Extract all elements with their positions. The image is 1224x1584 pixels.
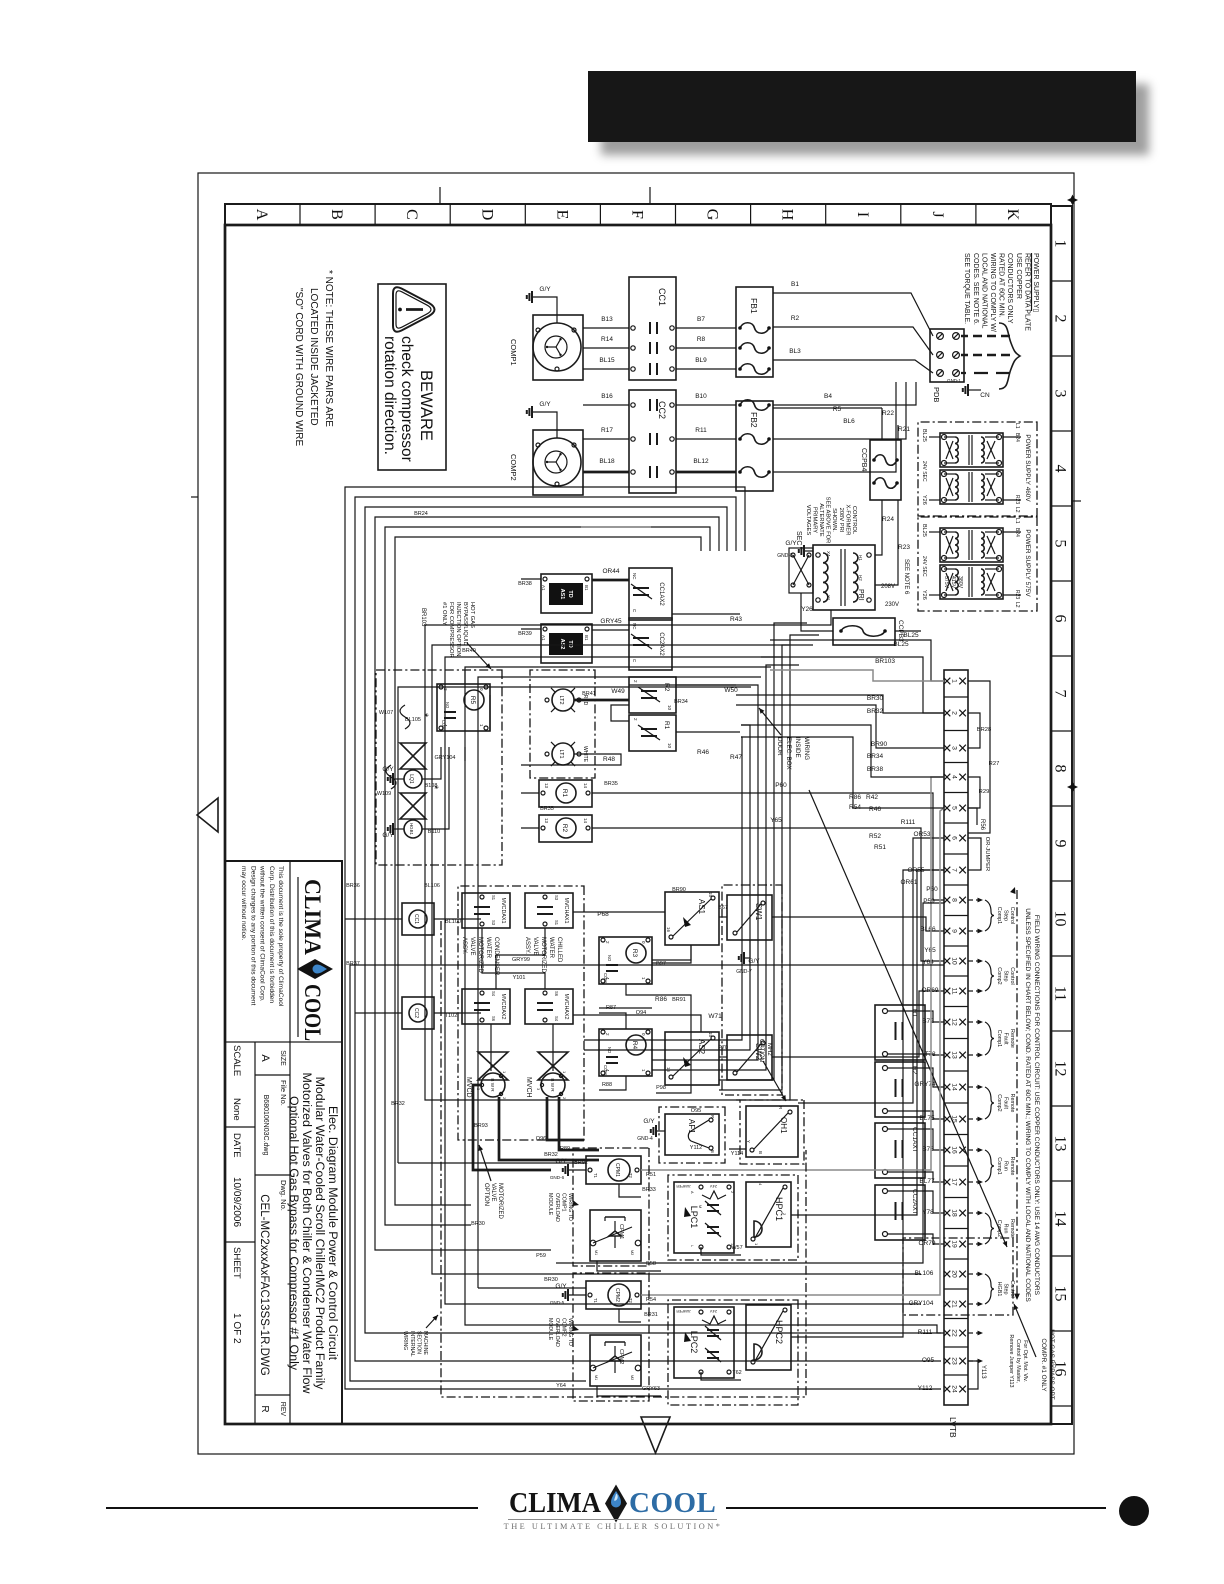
svg-text:FB1: FB1 (749, 298, 759, 314)
svg-text:415V: 415V (950, 576, 956, 589)
wire R23 (875, 500, 898, 585)
svg-text:B16: B16 (601, 393, 613, 400)
wire BL9 (676, 368, 736, 370)
svg-text:OH1: OH1 (779, 1117, 788, 1134)
wire W57 (701, 1247, 741, 1255)
svg-text:rotation direction.: rotation direction. (381, 336, 398, 455)
svg-text:Motorized Valves for Both Chil: Motorized Valves for Both Chiller & Cond… (300, 1073, 314, 1394)
module HPC2 (746, 1305, 791, 1370)
field wiring control step comp1 (968, 899, 980, 901)
svg-text:11: 11 (1052, 986, 1069, 1001)
module CPM2 coil (586, 1281, 641, 1309)
wire Y101 (482, 928, 545, 989)
svg-text:W49: W49 (611, 688, 625, 695)
svg-text:B97: B97 (656, 961, 666, 967)
wire R2 (773, 326, 905, 328)
svg-text:Y78: Y78 (922, 1209, 934, 1216)
svg-text:BR93: BR93 (474, 1123, 488, 1129)
svg-text:9: 9 (951, 929, 958, 933)
relay R3 (599, 937, 652, 984)
svg-text:CLIMA: CLIMA (300, 879, 325, 955)
svg-text:X1: X1 (826, 595, 831, 601)
corner star marker (1067, 195, 1078, 206)
svg-text:Remove Jumper Y113: Remove Jumper Y113 (1008, 1334, 1014, 1387)
svg-text:POWER SUPPLY 460V: POWER SUPPLY 460V (1024, 434, 1031, 502)
wire T62 (701, 1372, 741, 1380)
svg-text:H1: H1 (858, 555, 863, 561)
svg-text:Step: Step (1003, 970, 1009, 981)
svg-text:X-FORMER: X-FORMER (844, 505, 850, 536)
relay R4 (599, 1029, 652, 1076)
svg-text:R8: R8 (697, 336, 706, 343)
svg-text:R23: R23 (898, 544, 910, 551)
svg-text:15: 15 (1052, 1286, 1069, 1302)
lamp LT1 white (552, 743, 574, 765)
wire BL15 (583, 368, 629, 370)
module LPC1 (674, 1182, 734, 1253)
border tick left upper (649, 187, 651, 204)
svg-text:GND-6: GND-6 (550, 1175, 565, 1180)
svg-text:B W R: B W R (490, 1078, 495, 1092)
svg-text:R2: R2 (561, 824, 568, 833)
wire BR39 as2 (521, 628, 541, 630)
flow switch AF1 (665, 1114, 719, 1155)
svg-text:CODES. SEE NOTE 6.: CODES. SEE NOTE 6. (972, 253, 979, 325)
svg-text:T102: T102 (445, 1013, 458, 1019)
revision triangle right (641, 1417, 670, 1453)
svg-text:B13: B13 (601, 316, 613, 323)
svg-text:NO: NO (607, 955, 612, 962)
svg-text:W71: W71 (708, 1013, 722, 1020)
svg-text:WIRING TO COMPLY W/: WIRING TO COMPLY W/ (989, 253, 996, 332)
svg-text:CC1: CC1 (657, 288, 667, 306)
svg-text:BR41: BR41 (582, 691, 596, 697)
dash-dot comp2 modules (573, 1273, 649, 1401)
svg-text:JUMPER: JUMPER (676, 1184, 691, 1188)
svg-text:INTERNAL: INTERNAL (409, 1331, 415, 1357)
svg-text:LT1: LT1 (558, 749, 564, 758)
svg-text:Y65: Y65 (924, 947, 936, 954)
svg-text:1: 1 (502, 1071, 507, 1074)
module LPC2 (674, 1307, 734, 1378)
svg-text:15: 15 (708, 892, 713, 898)
field wiring remote fault comp1 (968, 1021, 980, 1023)
svg-text:BR35: BR35 (604, 781, 618, 787)
svg-text:COMPR. #1 ONLY: COMPR. #1 ONLY (1040, 1338, 1047, 1392)
svg-text:4: 4 (951, 775, 958, 779)
wire BR38 as1 (521, 578, 541, 580)
svg-text:5: 5 (951, 806, 958, 810)
ground LQ1 G/Y (394, 778, 404, 780)
svg-text:Step: Step (1003, 910, 1009, 921)
svg-text:R48: R48 (603, 756, 615, 763)
svg-text:H: H (779, 209, 796, 221)
svg-text:MVCH: MVCH (525, 1077, 532, 1098)
svg-text:3: 3 (1052, 390, 1069, 398)
transformer 460V secondary (940, 470, 1003, 504)
bus nest 3 (365, 507, 941, 1333)
svg-text:BR91: BR91 (672, 997, 686, 1003)
svg-text:R51: R51 (646, 1172, 656, 1178)
svg-text:WIRING: WIRING (402, 1331, 408, 1350)
svg-text:AS1: AS1 (559, 589, 565, 600)
footer rule left (106, 1507, 478, 1509)
jumper R27 (968, 681, 990, 833)
svg-text:HGB1: HGB1 (409, 823, 414, 836)
wire B7 (676, 327, 736, 329)
svg-text:L1: L1 (1014, 518, 1020, 524)
svg-text:7: 7 (951, 868, 958, 872)
module CPM2 overload (590, 1335, 641, 1386)
svg-text:13: 13 (951, 1051, 958, 1059)
jumper R29 (968, 777, 980, 808)
svg-text:BR103: BR103 (420, 608, 426, 627)
wire R43 (672, 613, 740, 615)
svg-text:R21: R21 (898, 426, 910, 433)
field wiring remote run comp2 (968, 1212, 980, 1214)
svg-text:K: K (1004, 209, 1021, 221)
svg-text:ELEC. BOX: ELEC. BOX (785, 737, 792, 770)
svg-text:Y26: Y26 (921, 590, 927, 600)
bus nest 6 (395, 537, 701, 1205)
svg-text:SEC: SEC (795, 531, 802, 545)
valve motor MVCH (538, 1052, 568, 1066)
bus nest outer (345, 487, 941, 1389)
svg-text:14: 14 (583, 783, 588, 789)
svg-text:2: 2 (605, 941, 610, 944)
svg-text:5: 5 (1052, 540, 1069, 548)
PDB feed wires (905, 293, 933, 336)
power supply 575V option box (918, 517, 1037, 611)
svg-text:R46: R46 (697, 749, 709, 756)
valve motor heavy wires (559, 1097, 599, 1150)
svg-text:B: B (710, 1150, 715, 1153)
svg-text:L2: L2 (1014, 507, 1020, 513)
svg-text:LPC2: LPC2 (689, 1331, 699, 1354)
title block outline (225, 861, 342, 1424)
field wiring boundary dash-dot (1016, 890, 1018, 1298)
svg-text:1: 1 (951, 679, 958, 683)
svg-text:GRY45: GRY45 (600, 618, 622, 625)
svg-text:may occur without notice.: may occur without notice. (240, 866, 247, 941)
field wiring remote run comp1 (968, 1149, 980, 1151)
svg-text:BR35: BR35 (540, 806, 554, 812)
wire W107 wire (489, 695, 491, 731)
svg-text:W109: W109 (377, 791, 391, 797)
svg-text:CN: CN (980, 392, 990, 399)
svg-text:G/Y: G/Y (555, 1158, 567, 1165)
svg-text:LPC1: LPC1 (689, 1206, 699, 1229)
svg-text:BL100: BL100 (445, 919, 461, 925)
svg-text:A: A (690, 1191, 694, 1194)
svg-text:ASSY.: ASSY. (461, 937, 467, 954)
solenoid LQ1 (400, 743, 426, 756)
svg-text:R4: R4 (631, 1041, 638, 1050)
svg-text:PRIMARY: PRIMARY (811, 507, 817, 533)
svg-text:NO: NO (445, 702, 450, 709)
svg-text:L: L (690, 1245, 694, 1247)
wire R111 oh1 (798, 838, 944, 1103)
svg-text:S6: S6 (554, 991, 559, 997)
svg-text:Y26: Y26 (921, 495, 927, 505)
wire GRY63 (597, 1386, 661, 1396)
svg-text:S1: S1 (491, 895, 496, 901)
svg-text:CONDUCTORS ONLY: CONDUCTORS ONLY (1006, 253, 1013, 324)
bus BR32 inner (398, 687, 751, 1163)
svg-text:CPM2: CPM2 (618, 1349, 624, 1364)
svg-text:15: 15 (708, 1032, 713, 1038)
machine section boundary dash-dot (441, 921, 806, 1397)
svg-text:W107: W107 (379, 710, 393, 716)
wire AX2 to motors (552, 1024, 554, 1071)
svg-text:BR32: BR32 (867, 708, 884, 715)
svg-text:23: 23 (951, 1357, 958, 1365)
svg-text:21: 21 (951, 1300, 958, 1308)
svg-text:2: 2 (633, 680, 638, 683)
ground HGB1 G/Y (394, 828, 404, 830)
compressor COMP1 (533, 315, 583, 380)
wire R87 (599, 1013, 626, 1029)
svg-text:G/Y: G/Y (539, 401, 551, 408)
wire P98 (656, 1085, 691, 1093)
ground CPM2 G/Y GND-5 (569, 1294, 586, 1296)
ruler letter band (225, 204, 1051, 225)
svg-text:J: J (929, 211, 946, 217)
svg-text:CC2: CC2 (413, 1008, 419, 1018)
svg-text:BL9: BL9 (695, 357, 707, 364)
svg-text:B4: B4 (824, 393, 832, 400)
svg-text:INJECTION OPTION: INJECTION OPTION (455, 602, 461, 656)
svg-text:NC: NC (632, 623, 637, 630)
svg-text:Remote: Remote (1009, 1157, 1015, 1176)
module CPM1 coil (586, 1156, 641, 1184)
svg-text:COM: COM (603, 973, 608, 983)
svg-text:M1: M1 (594, 1375, 598, 1380)
svg-text:S4: S4 (554, 1016, 559, 1022)
svg-text:20: 20 (951, 1270, 958, 1278)
wire B108 (422, 747, 441, 779)
pigtail W109 (386, 765, 396, 789)
svg-text:C: C (403, 209, 420, 220)
overload switch OH1 (746, 1106, 798, 1157)
svg-text:380V: 380V (957, 576, 963, 589)
svg-text:S6: S6 (491, 1016, 496, 1022)
svg-text:Comp2: Comp2 (996, 1094, 1002, 1111)
border tick bottom (191, 496, 198, 498)
svg-text:Remote: Remote (1009, 1029, 1015, 1048)
dash-dot comp1 modules (573, 1148, 649, 1266)
wire BL66 sw1 (772, 917, 944, 931)
svg-text:BL15: BL15 (599, 357, 615, 364)
wire OR61 hpc2 (791, 870, 944, 1337)
wire OR44 (592, 579, 629, 582)
relay contact R1 aux (875, 1005, 925, 1060)
svg-text:X4: X4 (826, 551, 831, 557)
switch SW1 (727, 895, 772, 940)
transformer 575V secondary (940, 565, 1003, 599)
svg-text:2: 2 (730, 1191, 734, 1193)
relay coil R1 (539, 780, 592, 807)
svg-text:12: 12 (951, 1018, 958, 1026)
border tick left lower (439, 187, 441, 204)
wire B4 (773, 382, 916, 405)
svg-text:R111: R111 (901, 819, 916, 826)
svg-text:CPM2: CPM2 (614, 1288, 620, 1302)
svg-text:O96: O96 (536, 1136, 546, 1142)
svg-text:SIZE: SIZE (279, 1050, 286, 1066)
wire B97 (652, 945, 691, 963)
svg-text:24V SEC: 24V SEC (921, 461, 927, 482)
svg-text:SEE ABOVE FOR: SEE ABOVE FOR (825, 497, 831, 544)
fuse block FB1 (736, 287, 773, 377)
svg-text:BR39: BR39 (518, 631, 532, 637)
svg-text:BL18: BL18 (599, 458, 615, 465)
svg-text:10: 10 (1052, 911, 1069, 927)
svg-text:2: 2 (1052, 315, 1069, 323)
wire BL6 (773, 382, 896, 472)
wire BL3 (773, 359, 905, 361)
svg-text:H2: H2 (858, 575, 863, 581)
svg-text:OR-JUMPER: OR-JUMPER (984, 837, 990, 871)
wire B16 (583, 404, 629, 406)
svg-text:R29: R29 (979, 789, 990, 795)
svg-text:8: 8 (1052, 765, 1069, 773)
wire BR31 (619, 1309, 641, 1322)
svg-text:MACHINE: MACHINE (422, 1331, 428, 1355)
bus R42 risers (741, 725, 944, 777)
svg-text:R14: R14 (601, 336, 613, 343)
svg-text:R5: R5 (469, 696, 476, 705)
svg-text:#1 ONLY: #1 ONLY (441, 602, 447, 626)
svg-text:check compressor: check compressor (398, 336, 415, 462)
svg-text:C: C (632, 609, 637, 613)
coil CC1 (402, 903, 434, 935)
control transformer (813, 545, 875, 610)
svg-text:R3: R3 (631, 949, 638, 958)
svg-text:Remote: Remote (1009, 1219, 1015, 1238)
svg-text:P60: P60 (775, 782, 787, 789)
svg-text:SCALE: SCALE (231, 1045, 242, 1076)
hot gas option dash-dot box (376, 670, 502, 865)
bus R86 riser (652, 945, 691, 960)
svg-text:BL6: BL6 (843, 418, 855, 425)
svg-text:17: 17 (951, 1178, 958, 1186)
ground COMP1 G/Y (533, 297, 557, 323)
svg-text:R1: R1 (561, 789, 568, 798)
bus BR30 inner (478, 677, 761, 1288)
wire Y26 (801, 593, 833, 631)
bus BR103 mid (425, 610, 831, 1100)
svg-text:SHOWN.: SHOWN. (831, 508, 837, 532)
svg-text:FOR COMPRESSOR: FOR COMPRESSOR (448, 602, 454, 658)
wire GRY99 (496, 928, 545, 989)
svg-text:COM: COM (603, 1065, 608, 1075)
svg-text:E: E (553, 210, 570, 220)
wire L2 supply dashed (961, 354, 1010, 357)
svg-text:LOCAL AND NATIONAL: LOCAL AND NATIONAL (980, 253, 987, 329)
warning triangle (393, 287, 435, 331)
wire R8 (676, 347, 736, 349)
bus nest 4 (375, 517, 719, 1250)
svg-text:PRI: PRI (857, 589, 864, 601)
wire GRY104 r2 (521, 827, 539, 829)
title row3 (225, 1126, 255, 1128)
wire O94 (599, 1007, 652, 1009)
svg-text:11: 11 (951, 987, 958, 994)
PDB terminal block (930, 329, 964, 382)
svg-text:G/Y: G/Y (643, 1118, 655, 1125)
svg-text:13: 13 (1052, 1136, 1069, 1152)
module HPC1 (746, 1182, 791, 1247)
svg-text:Y26: Y26 (801, 606, 813, 613)
svg-text:M: M (698, 1205, 702, 1208)
wire B67 (719, 916, 727, 918)
svg-text:6: 6 (951, 836, 958, 840)
bus gray wires (770, 670, 944, 681)
svg-text:1 OF 2: 1 OF 2 (231, 1313, 242, 1344)
contact CC1AX2 (629, 568, 672, 620)
svg-text:AS2: AS2 (559, 639, 565, 650)
svg-text:VALVE: VALVE (469, 937, 475, 955)
contact MVCDAX2 (462, 989, 510, 1024)
svg-text:10: 10 (951, 957, 958, 965)
svg-text:LQ1: LQ1 (408, 774, 414, 784)
svg-text:W57: W57 (731, 1245, 742, 1251)
svg-text:Control: Control (1009, 907, 1015, 924)
svg-text:M1: M1 (594, 1250, 598, 1255)
svg-text:R22: R22 (882, 410, 894, 417)
svg-text:10/09/2006: 10/09/2006 (231, 1177, 242, 1227)
svg-text:BR30: BR30 (471, 1221, 485, 1227)
border tick top (1072, 500, 1081, 502)
contact MVCHAX2 (525, 989, 573, 1024)
svg-text:7: 7 (1052, 690, 1069, 698)
wire L1 supply dashed (961, 335, 1010, 338)
svg-text:FB2: FB2 (749, 412, 759, 428)
svg-text:BR34: BR34 (867, 753, 884, 760)
svg-text:* NOTE: THESE WIRE PAIRS ARE: * NOTE: THESE WIRE PAIRS ARE (323, 270, 334, 427)
ground CPM1 G/Y GND-6 (569, 1169, 586, 1171)
svg-text:G/Y: G/Y (555, 1283, 567, 1290)
switch SW2 (727, 1035, 772, 1080)
svg-text:"SO" CORD WITH GROUND WIRE: "SO" CORD WITH GROUND WIRE (293, 288, 304, 447)
jumper R56 (968, 808, 977, 825)
contact box R1 lamp (629, 715, 676, 751)
wire R88 (599, 1076, 626, 1090)
svg-text:Comp2: Comp2 (996, 967, 1002, 984)
svg-text:B1: B1 (584, 585, 589, 591)
svg-text:14: 14 (951, 1083, 958, 1091)
svg-text:R43: R43 (730, 616, 742, 623)
wire R54 cpm2 (641, 808, 944, 1295)
svg-text:BR30: BR30 (867, 695, 884, 702)
svg-text:BL3: BL3 (789, 348, 801, 355)
svg-text:L1: L1 (1014, 423, 1020, 429)
svg-text:MOTORIZED: MOTORIZED (497, 1183, 503, 1220)
bus nest 5 (385, 527, 710, 1225)
svg-text:10: 10 (667, 743, 672, 749)
wire L3 supply dashed (961, 372, 1010, 374)
svg-text:TD: TD (567, 590, 573, 597)
wire W49 (574, 699, 629, 702)
svg-text:R5: R5 (833, 406, 842, 413)
svg-text:GRY104: GRY104 (435, 755, 456, 761)
valve assy dash-dot box (458, 886, 584, 1140)
svg-text:UNLESS SPECIFIED IN CHART BELO: UNLESS SPECIFIED IN CHART BELOW; COND. R… (1024, 908, 1031, 1302)
svg-text:24V: 24V (710, 1309, 717, 1314)
wire R46 lamp (676, 731, 740, 733)
svg-text:24V SEC: 24V SEC (921, 556, 927, 577)
